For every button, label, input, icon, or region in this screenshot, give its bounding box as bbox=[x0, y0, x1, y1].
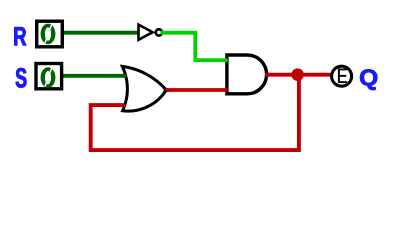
wire R input to inverter (logic 0, dark green) bbox=[63, 31, 139, 35]
input pin R box bbox=[37, 21, 63, 47]
node: OR output port dot (red) bbox=[166, 88, 170, 92]
wire AND output to output pin E (error, red) bbox=[268, 73, 330, 77]
node: AND bottom input port dot (red) bbox=[224, 88, 228, 92]
junction node on output wire (red dot) bbox=[291, 68, 304, 81]
OR gate G1 tip point bbox=[164, 87, 168, 94]
node: AND output port dot (red) bbox=[265, 72, 270, 77]
OR gate G1 bbox=[122, 66, 166, 111]
label Q (blue) bbox=[360, 69, 377, 90]
input pin R value 0 (slashed zero, dark green) bbox=[41, 24, 56, 45]
label S (blue) bbox=[16, 68, 27, 88]
output pin value E (error) bbox=[338, 68, 347, 83]
node: OR top input port dot (dark green) bbox=[123, 74, 127, 78]
inverter U1 (NOT gate triangle) bbox=[139, 25, 153, 40]
node: inverter output port dot (bright green) bbox=[161, 30, 165, 34]
node: OR bottom input port dot (red) bbox=[121, 103, 125, 107]
AND gate G2 bbox=[227, 55, 267, 94]
wire OR output to AND gate bottom input (error, red) bbox=[168, 88, 226, 92]
inverter U1 output bubble bbox=[156, 29, 162, 35]
wire S input to OR gate top input (logic 0, dark green) bbox=[62, 74, 124, 78]
input pin S box bbox=[36, 64, 62, 89]
input pin S value 0 (slashed zero, dark green) bbox=[41, 67, 56, 88]
label R (blue) bbox=[14, 27, 26, 45]
feedback wire from output node down, left and up into OR gate bottom input (error, red) bbox=[91, 75, 299, 150]
node: AND top input port dot (bright green) bbox=[224, 58, 228, 62]
wire inverter output to AND gate top input (logic 1, bright green) bbox=[163, 33, 226, 61]
output pin E circle bbox=[332, 66, 352, 86]
